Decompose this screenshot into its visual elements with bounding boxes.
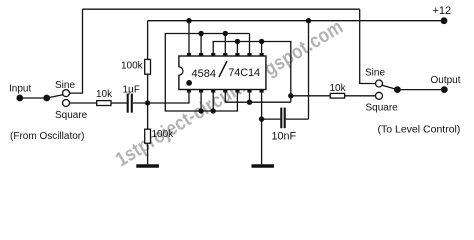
op-amp U1 IC body 4584/74C14: [178, 56, 266, 90]
svg-text:10nF: 10nF: [272, 131, 297, 143]
wire pin11 stub: [224, 34, 226, 57]
wire output line to 10k: [291, 95, 331, 97]
svg-text:Square: Square: [55, 110, 88, 121]
node pin2 junction: [198, 108, 203, 113]
node decoupling junction: [306, 18, 311, 23]
svg-text:Output: Output: [431, 75, 461, 86]
node left switch common: [43, 95, 50, 102]
wire pin3 stub: [212, 90, 214, 112]
wire pin2 stub: [200, 90, 202, 112]
ground left: [136, 164, 159, 168]
node pin3 junction: [211, 108, 216, 113]
node right sine contact: [376, 80, 383, 87]
node pin8 junction: [259, 39, 264, 44]
wire +12 rail: [148, 20, 444, 22]
wire pin6 stub: [249, 90, 251, 103]
wire left square line: [70, 102, 97, 104]
wire pin14 vcc stub: [188, 21, 190, 56]
junction dots: [145, 18, 311, 122]
wire top sine rail: [83, 8, 360, 10]
svg-text:100k: 100k: [152, 129, 175, 140]
wire 10nF right lead: [286, 118, 309, 120]
svg-text:1µF: 1µF: [123, 84, 140, 95]
resistor 10k right: [330, 93, 344, 98]
resistor 100k bottom: [145, 129, 151, 143]
svg-text:Sine: Sine: [365, 67, 385, 78]
IC pin pads bottom: [187, 90, 264, 93]
svg-text:Sine: Sine: [55, 80, 75, 91]
wire left sine drop: [70, 9, 83, 93]
capacitor 1uF plates: [127, 94, 129, 113]
IC pin pads top: [187, 53, 264, 56]
svg-text:Input: Input: [9, 84, 31, 95]
node right square contact: [376, 92, 383, 99]
node pin6 junction: [247, 100, 252, 105]
node input terminal: [16, 95, 23, 102]
wire output rail top (pins 12,10,8): [213, 42, 291, 103]
node output terminal: [441, 86, 448, 93]
node pin10 junction: [235, 39, 240, 44]
wire left lever: [47, 95, 63, 98]
node left square contact: [63, 100, 70, 107]
resistor 100k top: [145, 59, 151, 74]
ground middle: [252, 164, 275, 168]
node input bias junction: [145, 100, 150, 105]
node right switch common: [394, 86, 401, 93]
wire output line: [397, 89, 444, 91]
wire pin10 stub: [236, 42, 238, 57]
node 10nF ground junction: [259, 116, 264, 121]
node +12 terminal: [441, 17, 448, 24]
node left sine contact: [63, 90, 70, 97]
wire pin13 stub: [200, 34, 202, 57]
svg-text:4584: 4584: [192, 68, 216, 80]
wire right sine drop: [360, 9, 376, 83]
svg-text:Square: Square: [366, 103, 399, 114]
wire input rail (pins 13,11,9 and 2,3,5): [165, 34, 249, 112]
capacitor 10nF plates: [280, 108, 282, 129]
node output bus junction: [288, 93, 293, 98]
node pin13 junction: [198, 31, 203, 36]
resistor 10k left: [97, 101, 111, 106]
wire right lever: [382, 85, 397, 89]
wire +12 decoupling drop: [308, 21, 310, 119]
svg-text:(To Level Control): (To Level Control): [378, 124, 461, 136]
svg-text:(From Oscillator): (From Oscillator): [10, 131, 84, 142]
svg-text:10k: 10k: [330, 83, 347, 94]
terminal dots: [16, 17, 447, 101]
switch contacts: [63, 80, 383, 107]
wire 10nF left lead: [262, 118, 281, 120]
svg-text:10k: 10k: [96, 89, 113, 100]
node pin14 vcc junction: [186, 18, 191, 23]
wire output lower link (pins 4,6): [225, 90, 290, 103]
node pin11 junction: [223, 31, 228, 36]
wire pin9 stub: [249, 34, 251, 57]
wire input line: [20, 97, 47, 99]
wire pin7 ground drop: [261, 90, 263, 165]
svg-text:74C14: 74C14: [228, 67, 260, 79]
wire 100k bias chain vertical: [147, 21, 149, 60]
svg-text:+12: +12: [433, 5, 452, 17]
watermark: [112, 16, 348, 172]
svg-text:100k: 100k: [121, 61, 144, 72]
wire pin8 stub: [261, 42, 263, 57]
wire signal to pin1: [133, 90, 189, 104]
